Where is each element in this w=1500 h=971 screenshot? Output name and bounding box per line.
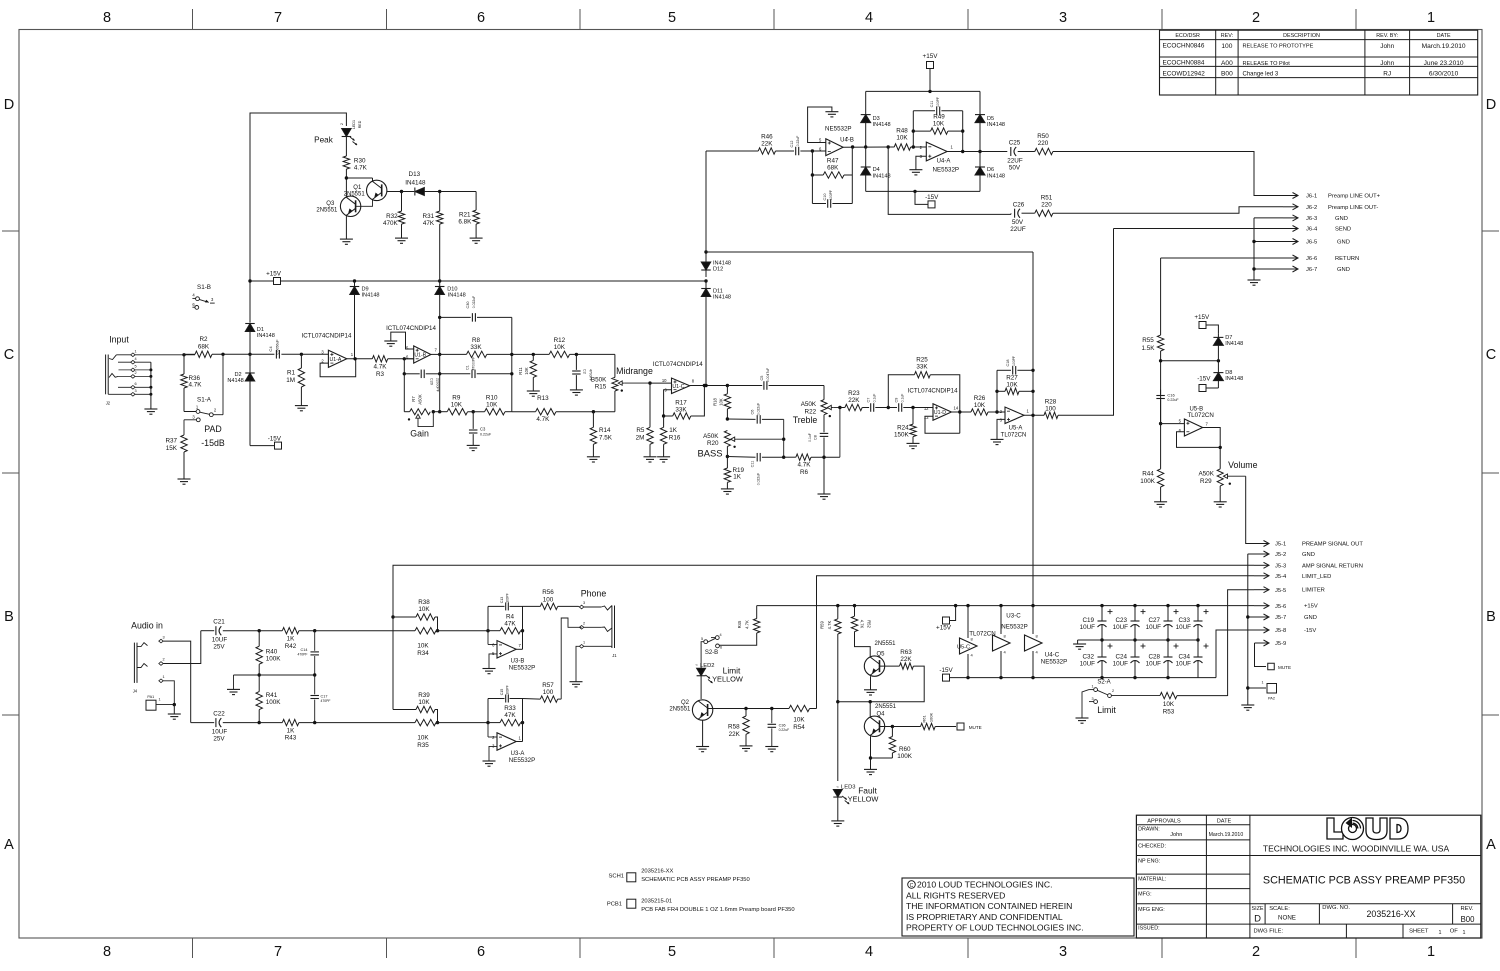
node R9 R10 junction [472,410,475,413]
node bass bottom [726,455,729,458]
resistor R63 22K [900,663,914,669]
svg-text:C22: C22 [213,710,225,717]
svg-text:C11: C11 [751,461,755,468]
svg-text:TECHNOLOGIES INC. WOODINVILLE: TECHNOLOGIES INC. WOODINVILLE WA. USA [1263,844,1450,854]
wire input to R46 [706,150,748,152]
resistor R33 47K [500,719,521,725]
capacitor C29 22000PF [404,373,419,375]
capacitor C34 10UF [1194,656,1203,658]
svg-text:R54: R54 [793,724,805,731]
svg-text:2N5551: 2N5551 [874,641,896,647]
svg-text:A50K: A50K [418,394,423,404]
svg-text:R63: R63 [900,649,912,656]
svg-text:R39: R39 [418,692,430,699]
capacitor C11b 0.022uF bottom [727,456,755,459]
connector J5-6 +15V [1254,605,1269,607]
svg-text:4.7K: 4.7K [374,363,388,370]
svg-text:10K: 10K [1163,701,1175,708]
resistor R57 100 [523,698,541,701]
ground for Q2 [696,746,709,748]
svg-text:1: 1 [134,349,136,353]
svg-text:DATE: DATE [1217,819,1232,825]
svg-text:TL072CN: TL072CN [1001,433,1027,439]
wire Q2 emitter ground [702,720,704,746]
svg-text:PA2: PA2 [1268,697,1275,701]
wire J5-9 to MUTE [1255,643,1267,667]
svg-text:100K: 100K [266,699,282,706]
op-amp U3-C power [999,604,1002,607]
svg-text:3: 3 [1059,10,1067,26]
resistor R36 4.7K [183,354,185,374]
svg-text:10UF: 10UF [1080,661,1096,668]
wire phone ring to R57 [561,618,581,699]
svg-text:4: 4 [865,10,873,26]
svg-text:Q1: Q1 [353,185,362,191]
resistor R8 33K [467,351,487,357]
bass pot wiper [732,438,737,440]
volume pot wiper [1225,475,1230,477]
svg-text:1K: 1K [733,474,742,481]
svg-text:C2: C2 [583,369,587,374]
connector J6-3 GND [1254,217,1283,219]
wire U1-D pin12 [932,407,934,410]
svg-text:2: 2 [583,622,585,626]
copyright notice box [902,878,1134,936]
svg-text:0.022uF: 0.022uF [757,473,761,485]
gain pot wiper [416,414,420,418]
svg-text:RELEASE TO Pilot: RELEASE TO Pilot [1243,61,1291,67]
wire mid rail to R12 [512,353,549,355]
svg-text:C3: C3 [480,427,486,432]
svg-text:J5-8: J5-8 [1275,628,1286,634]
resistor R5 2M [649,383,651,427]
wire U3-A output [516,741,522,743]
svg-text:R61: R61 [922,715,927,723]
resistor R14 7.5K [592,410,595,413]
connector J6-6 RETURN [1161,257,1283,259]
svg-text:J1: J1 [612,653,617,658]
svg-text:U4-A: U4-A [937,159,951,165]
svg-text:B: B [4,609,14,625]
svg-text:5: 5 [668,10,676,26]
connector J6-1 Preamp LINE OUT+ [1283,195,1298,197]
svg-text:2035215-01: 2035215-01 [641,899,672,905]
svg-text:0.1uF: 0.1uF [873,394,877,403]
svg-text:IN4148: IN4148 [987,173,1005,179]
svg-text:10K: 10K [418,606,430,613]
svg-text:D: D [1254,914,1261,925]
svg-text:D: D [4,97,14,113]
svg-text:100K: 100K [897,753,913,760]
svg-text:C12: C12 [790,141,794,148]
svg-text:R58: R58 [728,723,740,730]
wire volume to J5-1 [1246,476,1256,543]
svg-text:1K: 1K [287,636,296,643]
svg-text:2: 2 [1252,944,1260,960]
wire U1-D output [951,411,971,413]
svg-text:OF: OF [1450,929,1459,935]
svg-text:33K: 33K [470,344,482,351]
wire -15V rail [949,677,1216,679]
svg-text:C8: C8 [814,435,818,440]
svg-text:S2-B: S2-B [705,650,718,656]
svg-text:6.8K: 6.8K [458,219,472,226]
svg-text:AMP SIGNAL RETURN: AMP SIGNAL RETURN [1302,563,1363,569]
wire R52 to Q5 collector [855,632,871,657]
svg-text:2M: 2M [636,435,645,442]
ground for U4-B pin5 [808,107,832,143]
svg-text:C6: C6 [751,410,755,415]
svg-text:J5-2: J5-2 [1275,552,1286,558]
svg-text:SCALE:: SCALE: [1269,906,1290,912]
svg-text:R6: R6 [800,469,809,476]
svg-text:33K: 33K [916,364,928,371]
op-amp U1-A [301,353,328,355]
svg-text:6: 6 [477,10,485,26]
node mid rail R40 R41 [258,673,261,676]
node treble out [838,406,841,409]
svg-text:4.7K: 4.7K [536,416,550,423]
title block size scale cells [1264,904,1266,924]
capacitor C18 100PF [997,369,1011,371]
capacitor C8 0.1uF [823,415,825,433]
resistor R27 10K feedback [996,370,998,412]
svg-text:7.5K: 7.5K [599,435,613,442]
svg-text:5: 5 [701,637,703,641]
resistor R60 100K [891,727,893,737]
transistor Q4 2N5551 [869,702,871,717]
connector J5-9 [1255,642,1270,644]
svg-text:100K: 100K [929,712,934,722]
revision table [1160,30,1478,95]
svg-text:R44: R44 [1142,471,1154,478]
svg-text:1: 1 [1261,681,1263,685]
svg-text:IN4148: IN4148 [1225,376,1243,382]
svg-text:TL072CN: TL072CN [1187,412,1213,419]
capacitor C5 0.0047uF [727,385,762,387]
svg-text:0.1uF: 0.1uF [901,394,905,403]
svg-text:R38: R38 [418,599,430,606]
wire U5-A output [1024,414,1044,416]
capacitor C21 10UF 25V [201,630,214,632]
ground for R37 [178,478,191,480]
resistor R9 10K [447,409,467,415]
svg-text:ICTL074CNDIP14: ICTL074CNDIP14 [908,388,958,395]
svg-text:DRAWN:: DRAWN: [1138,827,1160,833]
svg-text:R9: R9 [452,395,461,402]
svg-text:B00: B00 [1221,71,1233,78]
resistor R26 10K [971,409,988,415]
svg-text:1: 1 [1463,930,1466,936]
svg-text:A: A [1486,837,1496,853]
svg-text:R46: R46 [761,133,773,140]
ground for R5 [644,456,657,458]
svg-text:33K: 33K [675,406,687,413]
svg-text:Treble: Treble [793,415,818,425]
wire U4-A output [947,151,1007,153]
svg-text:C26: C26 [1013,201,1025,208]
resistor R11 10K [532,353,535,356]
audio jack J4 [133,643,135,683]
svg-text:J2: J2 [106,401,111,406]
svg-text:~: ~ [695,663,698,668]
svg-text:100PF: 100PF [1012,356,1016,366]
svg-text:ALL RIGHTS RESERVED: ALL RIGHTS RESERVED [906,890,1005,900]
svg-text:10K: 10K [896,134,908,141]
svg-text:R47: R47 [827,157,839,164]
svg-text:ICTL074CNDIP14: ICTL074CNDIP14 [386,325,436,332]
diode D3 IN4148 [865,91,867,114]
+15V power bottom [943,617,950,624]
svg-text:R8: R8 [472,337,481,344]
svg-text:BASS: BASS [697,448,722,459]
resistor R21 6.8K [475,192,477,211]
ground for R14 [587,456,600,458]
svg-text:2: 2 [340,123,344,125]
resistor R43 1K [282,719,299,725]
svg-text:22K: 22K [761,140,773,147]
node U4-A pin2 [912,145,915,148]
svg-text:MATERIAL:: MATERIAL: [1138,877,1166,883]
svg-text:B50K: B50K [591,377,607,384]
svg-text:D13: D13 [409,171,421,178]
op-amp U5-C power [966,604,969,607]
wire Q5 base to R63 [880,665,900,667]
op-amp U5-A [1005,407,1024,424]
node U3-B input [486,629,489,632]
capacitor C19 10UF [1100,604,1103,607]
svg-text:7: 7 [274,10,282,26]
zone tick marks left [2,230,19,232]
resistor R44 100K [1157,469,1163,487]
svg-text:6: 6 [134,382,136,386]
svg-text:C4: C4 [268,346,273,352]
wire tone low rail [433,411,447,413]
wire bass vertical x=783.7 [783,419,785,457]
resistor R46 22K [758,148,775,154]
svg-text:22K: 22K [848,397,860,404]
svg-text:6: 6 [720,646,722,650]
ground for R24 [907,442,920,444]
wire U3-A pin3 ground [489,746,497,761]
wire top audio line [259,630,282,632]
connector J5-3 AMP SIGNAL RETURN [1254,564,1269,566]
svg-text:2: 2 [134,371,136,375]
title block [1136,815,1480,938]
svg-text:C23: C23 [1115,617,1127,624]
input jack J2 [105,355,107,395]
svg-text:10UF: 10UF [1146,661,1162,668]
svg-text:C18: C18 [1006,360,1010,367]
svg-text:50V: 50V [1009,164,1021,171]
wire cap bank mid gnd rail [1078,639,1198,641]
svg-text:100: 100 [543,689,554,696]
-15V power right [1206,387,1218,389]
svg-text:10K: 10K [486,402,498,409]
diode D4 IN4148 [865,147,867,167]
resistor R10 10K [485,409,505,415]
svg-text:NE5532P: NE5532P [1041,659,1068,666]
resistor R58 22K [744,707,747,710]
diode D2 IN4148 [249,354,251,373]
svg-text:25V: 25V [213,735,225,742]
svg-text:+15V: +15V [923,53,939,60]
svg-text:100PF: 100PF [936,97,940,107]
svg-text:DATE: DATE [1437,33,1451,39]
svg-text:NONE: NONE [1278,915,1296,922]
svg-text:R2: R2 [199,336,208,343]
op-amp U4-A [926,142,947,161]
connector J5-1 PREAMP SIGNAL OUT [1256,543,1269,545]
svg-text:IN4148: IN4148 [257,333,275,339]
svg-text:0.22uF: 0.22uF [1167,398,1179,402]
svg-text:C19: C19 [1082,617,1094,624]
svg-text:10: 10 [662,378,667,383]
svg-text:4: 4 [720,633,722,637]
node midrange wiper to R5 [648,381,651,384]
svg-text:LED3: LED3 [841,785,856,791]
svg-text:APPROVALS: APPROVALS [1147,819,1181,825]
capacitor C15 100PF [487,699,489,723]
svg-text:R17: R17 [675,399,687,406]
svg-text:R3: R3 [376,371,385,378]
wire U1-B output [431,353,440,355]
svg-text:PAD: PAD [204,424,221,434]
svg-text:C33: C33 [1178,617,1190,624]
ground for cap bank [1073,643,1086,645]
svg-text:R27: R27 [1006,375,1018,382]
ground for J6 bus [1248,279,1261,281]
resistor R37 15K [181,435,187,452]
svg-text:-15V: -15V [1197,376,1211,383]
resistor R34 10K [415,628,436,634]
svg-text:R34: R34 [417,650,429,657]
svg-text:John: John [1170,832,1182,838]
svg-text:+15V: +15V [936,625,952,632]
svg-text:J6-5: J6-5 [1306,240,1317,246]
svg-text:2035216-XX: 2035216-XX [1367,909,1416,919]
wire R13 rail [512,411,536,413]
svg-text:10UF: 10UF [1080,624,1096,631]
capacitor C33 10UF [1196,604,1199,607]
switch S2-B [715,636,719,640]
capacitor C11 100PF [913,110,935,112]
svg-text:C: C [4,347,14,363]
svg-text:15K: 15K [166,445,178,452]
svg-text:J5-6: J5-6 [1275,604,1286,610]
svg-text:C7: C7 [867,398,871,403]
svg-text:IN4148: IN4148 [713,295,731,301]
svg-text:Input: Input [109,335,129,345]
bass pot R20 A50K [724,431,730,447]
wire Q2 base line [708,708,789,710]
svg-text:GND: GND [1304,615,1317,621]
R49 C11 feedback loop verticals [912,111,914,147]
svg-text:R35: R35 [417,742,429,749]
svg-text:68K: 68K [198,344,210,351]
svg-text:J5-9: J5-9 [1275,641,1286,647]
svg-text:4.7K: 4.7K [745,620,750,629]
svg-text:100: 100 [1221,43,1232,50]
svg-text:PROPERTY OF LOUD TECHNOLOGIES: PROPERTY OF LOUD TECHNOLOGIES INC. [906,923,1084,933]
svg-text:U3-C: U3-C [1006,612,1021,619]
svg-text:10K: 10K [1006,382,1018,389]
svg-text:IS PROPRIETARY AND CONFIDENTIA: IS PROPRIETARY AND CONFIDENTIAL [906,912,1063,922]
svg-text:1K: 1K [287,728,296,735]
-15V power bottom [943,674,950,681]
svg-text:THE INFORMATION CONTAINED HERE: THE INFORMATION CONTAINED HEREIN [906,901,1072,911]
connector J6-4 SEND [1114,228,1284,230]
input jack contact wires [116,354,195,356]
svg-text:IN4148: IN4148 [1225,341,1243,347]
svg-text:U4-C: U4-C [1045,652,1060,659]
capacitor C16 0.22uF [1160,390,1162,395]
svg-text:6/30/2010: 6/30/2010 [1429,71,1459,78]
svg-text:RELEASE TO PROTOTYPE: RELEASE TO PROTOTYPE [1243,44,1314,50]
svg-text:S1-B: S1-B [197,284,211,291]
svg-text:J4: J4 [133,688,138,693]
svg-text:MUTE: MUTE [969,725,982,730]
svg-text:C25: C25 [1009,140,1021,147]
svg-text:Preamp LINE OUT+: Preamp LINE OUT+ [1328,194,1381,200]
svg-text:R4: R4 [506,614,515,621]
wire R28 to send [1058,229,1114,416]
capacitor C22 10UF 25V [191,722,215,724]
svg-text:C11: C11 [930,101,934,108]
capacitor C14 470PF [314,631,316,651]
svg-text:A50K: A50K [703,433,719,440]
svg-text:DWG. NO.: DWG. NO. [1322,905,1350,911]
capacitor C17 470PF [314,675,316,694]
capacitor C30 0.022uF loop [438,316,441,319]
connector J5-4 LIMIT_LED [1254,575,1269,577]
wire U4-B output [843,146,894,148]
svg-text:A50K: A50K [1198,471,1214,478]
svg-text:47K: 47K [423,220,435,227]
svg-text:PCB FAB FR4 DOUBLE 1 OZ 1.6mm: PCB FAB FR4 DOUBLE 1 OZ 1.6mm Preamp boa… [641,907,794,913]
svg-text:GND: GND [1337,240,1350,246]
capacitor C4 [250,353,274,355]
svg-text:3: 3 [1091,697,1093,701]
gain pot R7 A50K [403,374,405,412]
ground for input jack [144,408,157,410]
svg-text:R37: R37 [165,438,177,445]
svg-text:Limit: Limit [1097,705,1116,715]
op-amp U1-C [650,382,672,384]
wire U4-A pin3 ground [916,156,926,170]
svg-text:12: 12 [924,406,929,411]
wire J6 ground bus [1253,218,1255,280]
svg-text:10UF: 10UF [1176,624,1192,631]
svg-text:ECOCHN0846: ECOCHN0846 [1163,43,1205,50]
svg-text:J5-7: J5-7 [1275,615,1286,621]
node R55 diode junction [1159,359,1162,362]
wire U1-C pin9 node [664,390,672,416]
ground for Q5 [864,689,877,691]
wire S2-B common to LED2 [701,642,704,668]
svg-text:C9: C9 [895,398,899,403]
svg-text:2N5551: 2N5551 [875,704,897,710]
svg-text:R1: R1 [287,370,296,377]
svg-text:YELLOW: YELLOW [712,674,743,683]
transistor Q5 2N5551 [864,656,884,676]
svg-text:Q3: Q3 [326,201,335,207]
resistor R23 22K [840,407,845,409]
svg-text:0.22uF: 0.22uF [779,728,790,732]
capacitor C7 0.1uF [862,407,869,409]
svg-text:ECO/DSR: ECO/DSR [1175,33,1200,39]
+15V power right [1199,322,1206,329]
